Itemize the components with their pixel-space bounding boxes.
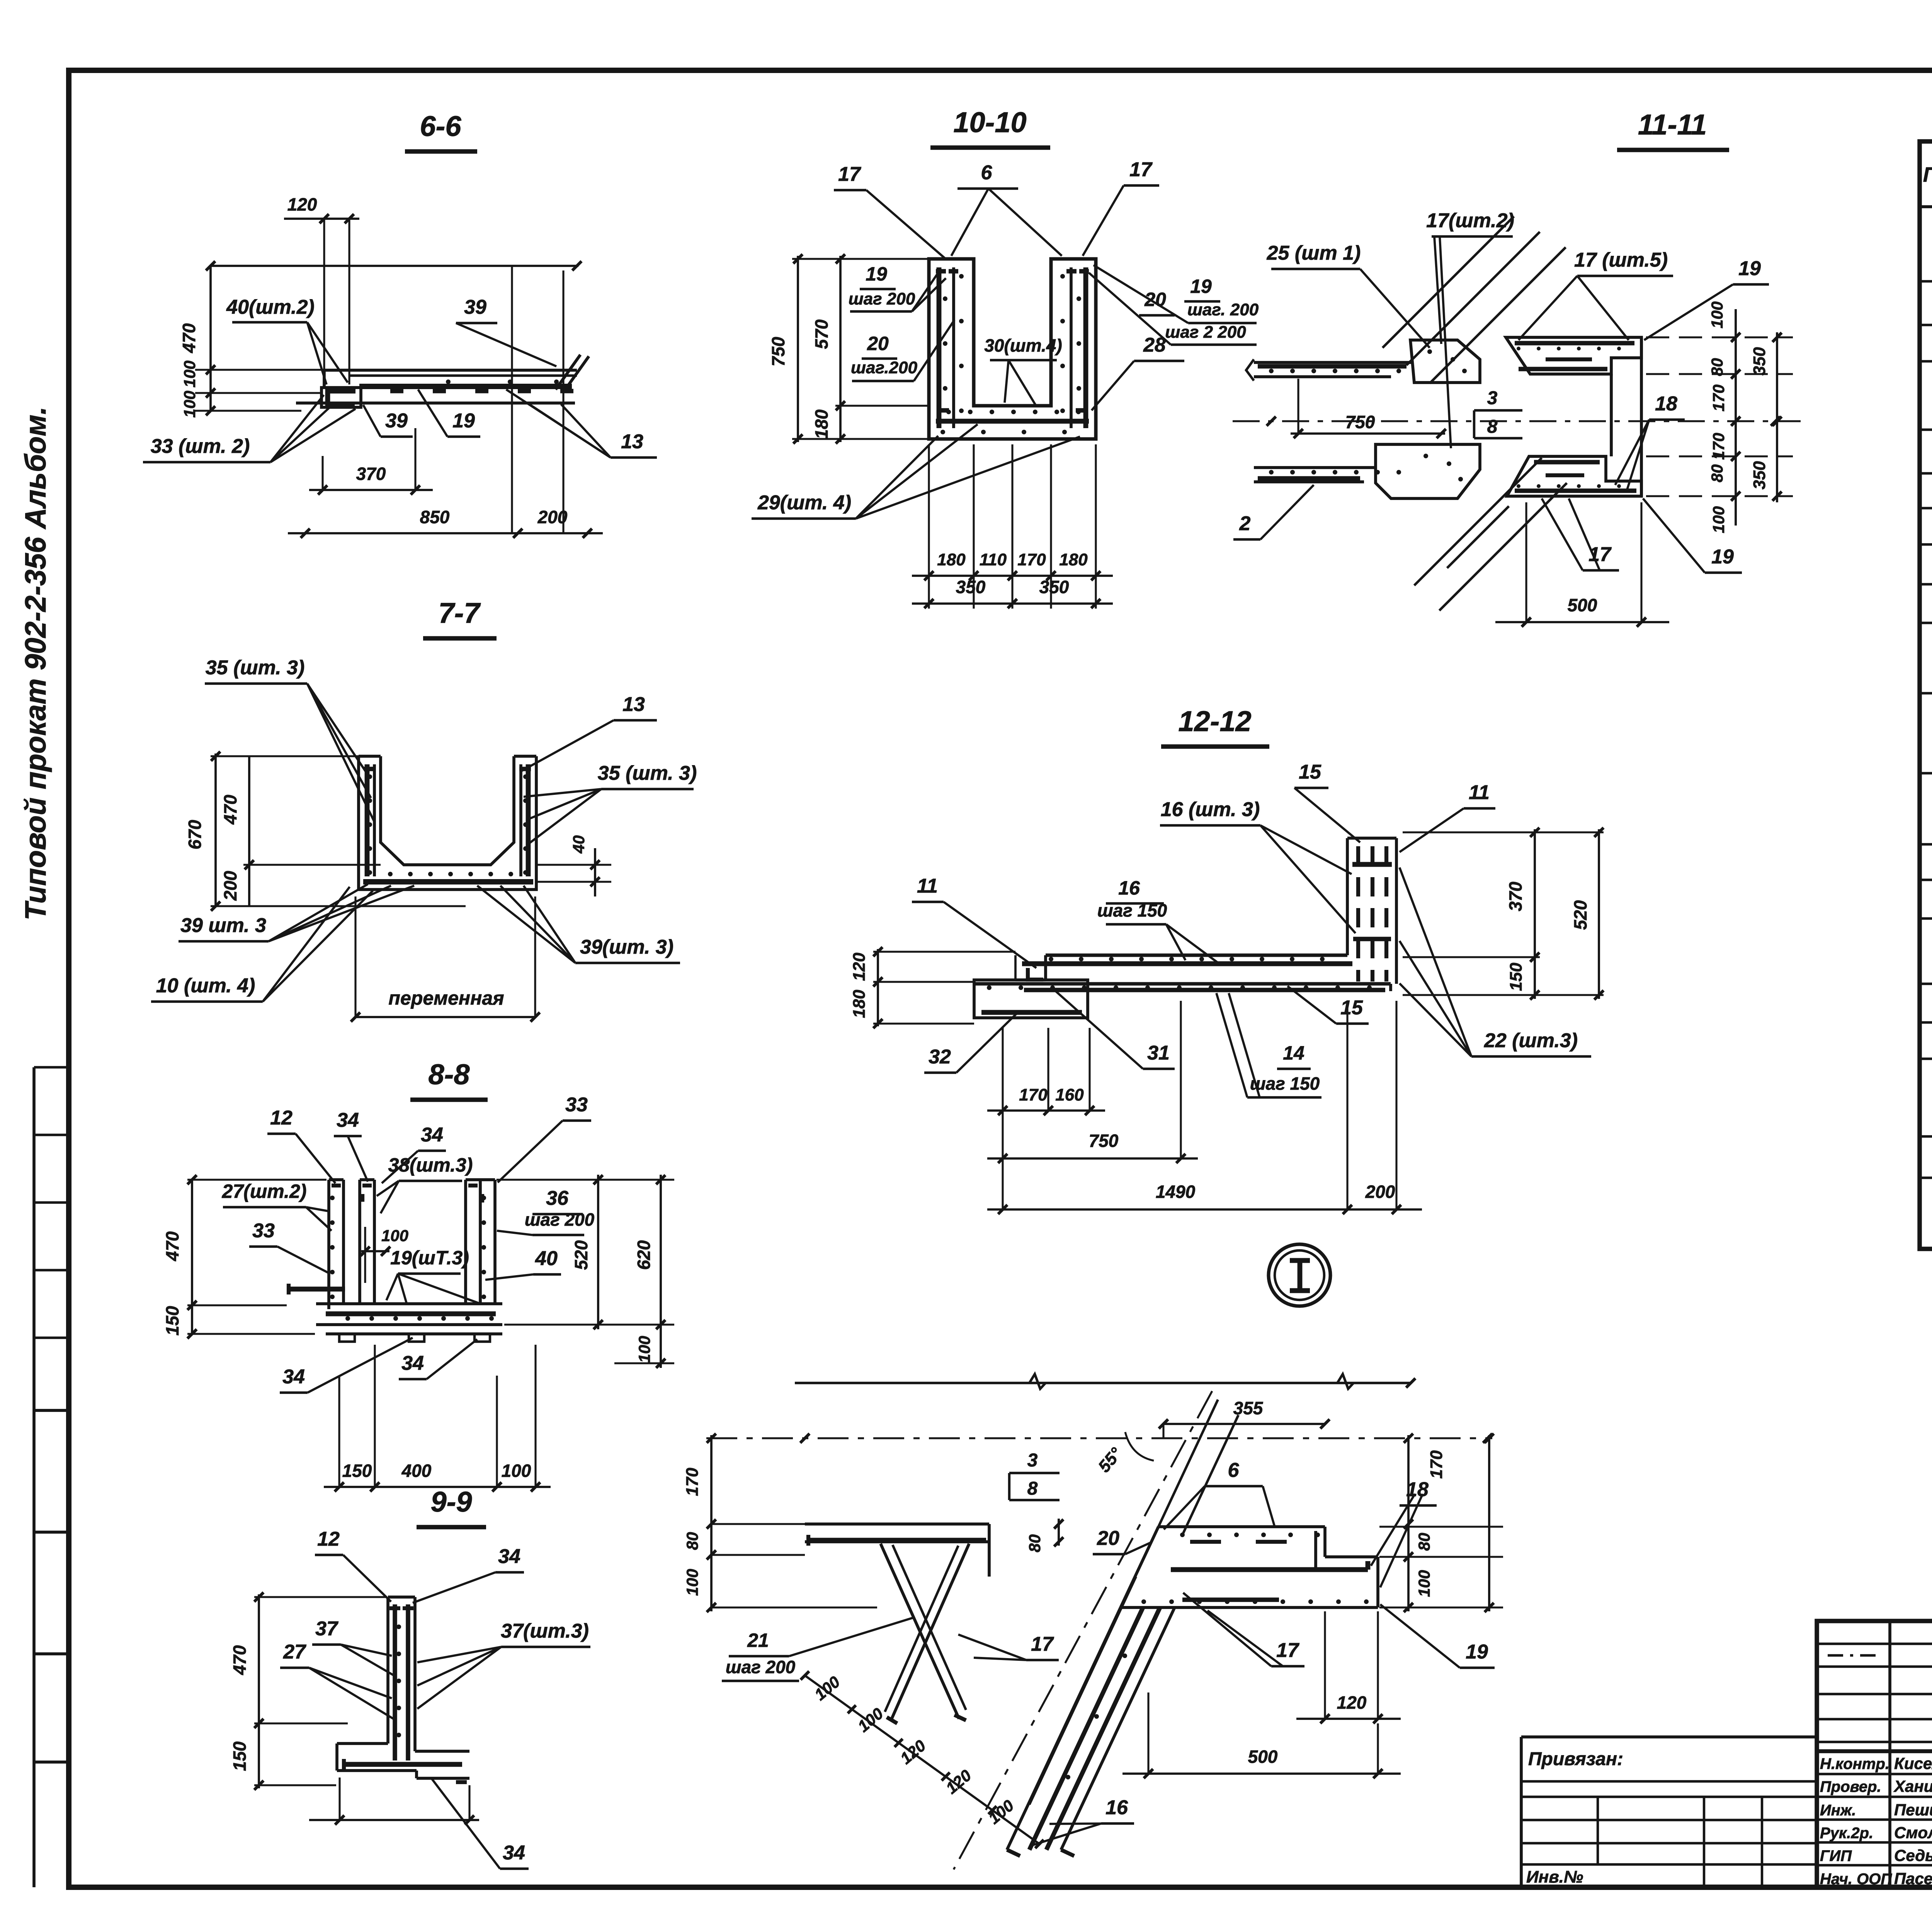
svg-text:39 шт. 3: 39 шт. 3 xyxy=(180,914,266,937)
section 10-10 label 20 shag 200 left xyxy=(851,320,954,381)
section 9-9 label 34 top xyxy=(413,1545,524,1603)
svg-text:33: 33 xyxy=(565,1094,588,1116)
section 11-11 centerline xyxy=(1233,417,1801,426)
svg-text:100: 100 xyxy=(381,1226,408,1245)
detail left dim chain xyxy=(683,1434,877,1612)
svg-text:17: 17 xyxy=(1276,1639,1299,1662)
svg-text:19: 19 xyxy=(866,263,887,285)
svg-text:38(шт.3): 38(шт.3) xyxy=(388,1154,473,1176)
svg-text:400: 400 xyxy=(401,1461,432,1481)
svg-text:13: 13 xyxy=(622,693,645,716)
section 12-12 label 11 left xyxy=(912,875,1036,968)
section 12-12 label 16(sht.3) xyxy=(1160,798,1355,933)
section 6-6 label 19 xyxy=(418,390,480,437)
section 12-12 label 31 xyxy=(1056,991,1175,1069)
detail label 19 right xyxy=(1380,1604,1495,1668)
section 12-12 label 11 top xyxy=(1400,781,1495,852)
section 8-8 label 33 left xyxy=(249,1220,329,1273)
svg-text:470: 470 xyxy=(220,794,240,825)
svg-text:80: 80 xyxy=(683,1532,701,1550)
svg-text:2: 2 xyxy=(1239,512,1251,535)
svg-text:39: 39 xyxy=(385,410,408,432)
svg-text:170: 170 xyxy=(1427,1450,1446,1479)
section 6-6 label 39 right xyxy=(456,296,556,366)
svg-text:27: 27 xyxy=(283,1641,306,1663)
section 8-8 label 34 b xyxy=(382,1124,446,1183)
section 9-9 label 37 xyxy=(312,1618,393,1675)
section 11-11 label 19 top xyxy=(1644,257,1769,340)
svg-text:100: 100 xyxy=(502,1461,531,1481)
detail long diagonal xyxy=(954,1391,1212,1869)
svg-text:Инв.№: Инв.№ xyxy=(1526,1868,1583,1886)
svg-text:Н.контр.: Н.контр. xyxy=(1820,1755,1889,1772)
svg-text:шаг 200: шаг 200 xyxy=(849,289,915,308)
svg-text:110: 110 xyxy=(980,550,1007,569)
svg-text:12: 12 xyxy=(317,1528,340,1550)
svg-text:шаг 2 200: шаг 2 200 xyxy=(1165,323,1246,342)
svg-text:Киселев: Киселев xyxy=(1894,1754,1932,1772)
section 7-7 label 35(sht.3) top xyxy=(205,657,374,821)
section 10-10 label 19 shag 200 right xyxy=(1094,265,1259,323)
svg-text:1490: 1490 xyxy=(1156,1182,1196,1202)
detail dim 500 xyxy=(1122,1692,1401,1778)
section 11-11 dim 500 xyxy=(1495,502,1669,627)
detail centerline xyxy=(706,1434,1492,1443)
svg-text:35 (шт. 3): 35 (шт. 3) xyxy=(206,657,305,679)
title block grid xyxy=(1817,1621,1932,1887)
svg-text:33: 33 xyxy=(252,1220,275,1242)
section 8-8 label 19(sht.3) xyxy=(386,1247,478,1303)
section 6-6 dim 370 xyxy=(309,428,433,495)
svg-text:19: 19 xyxy=(1466,1641,1488,1663)
section 11-11 title xyxy=(1617,109,1729,150)
detail label 17 left xyxy=(958,1633,1059,1660)
svg-text:12-12: 12-12 xyxy=(1178,705,1251,737)
section 12-12 bottom dims xyxy=(987,1001,1422,1214)
svg-text:15: 15 xyxy=(1299,761,1321,783)
svg-text:170: 170 xyxy=(1017,550,1046,569)
section 8-8 left dim chain xyxy=(162,1175,327,1339)
section 9-9 label 37(sht.3) xyxy=(417,1620,590,1709)
detail angle 55 xyxy=(1095,1432,1154,1476)
svg-text:170: 170 xyxy=(1709,433,1728,460)
detail diagonal dim chain xyxy=(801,1671,1044,1848)
svg-text:6-6: 6-6 xyxy=(420,110,462,142)
svg-text:Привязан:: Привязан: xyxy=(1528,1749,1623,1769)
svg-text:шаг. 200: шаг. 200 xyxy=(1187,300,1259,319)
detail label 21 shag200 xyxy=(722,1617,915,1681)
svg-text:16: 16 xyxy=(1105,1796,1128,1819)
svg-text:Инж.: Инж. xyxy=(1820,1802,1856,1819)
svg-text:ГИП: ГИП xyxy=(1820,1847,1852,1864)
section 12-12 outline and rebar xyxy=(974,838,1396,1018)
section 11-11 left slabs xyxy=(1246,340,1480,498)
svg-text:Пасева: Пасева xyxy=(1894,1869,1932,1888)
svg-text:150: 150 xyxy=(162,1306,182,1335)
section 7-7 left dim chain xyxy=(185,752,466,911)
svg-text:20: 20 xyxy=(1144,289,1166,310)
svg-text:470: 470 xyxy=(230,1645,250,1675)
left table header xyxy=(1923,159,1932,186)
svg-text:35 (шт. 3): 35 (шт. 3) xyxy=(598,762,697,784)
svg-text:160: 160 xyxy=(1055,1085,1084,1104)
svg-text:37: 37 xyxy=(315,1618,338,1640)
svg-text:370: 370 xyxy=(356,464,386,484)
section 10-10 channel outline and rebar xyxy=(929,259,1096,439)
svg-text:37(шт.3): 37(шт.3) xyxy=(501,1620,589,1642)
section 11-11 label 17 bottom xyxy=(1542,498,1619,570)
binding strip xyxy=(34,1067,69,1887)
detail top line xyxy=(795,1374,1415,1389)
svg-text:8: 8 xyxy=(1027,1478,1038,1499)
svg-text:750: 750 xyxy=(1089,1131,1119,1151)
section 6-6 dim 120 xyxy=(284,194,359,386)
svg-text:100: 100 xyxy=(1708,301,1726,328)
svg-text:25 (шт 1): 25 (шт 1) xyxy=(1267,242,1361,264)
svg-text:370: 370 xyxy=(1505,881,1526,911)
svg-text:350: 350 xyxy=(1750,347,1769,376)
section 12-12 title xyxy=(1161,705,1269,747)
section 10-10 label 29(sht.4) xyxy=(752,424,1080,519)
svg-text:500: 500 xyxy=(1568,595,1597,615)
svg-text:34: 34 xyxy=(282,1366,305,1388)
svg-text:10-10: 10-10 xyxy=(953,106,1026,138)
svg-text:18: 18 xyxy=(1655,393,1677,415)
svg-text:570: 570 xyxy=(811,319,832,349)
svg-text:200: 200 xyxy=(1365,1182,1395,1202)
svg-text:19: 19 xyxy=(1738,257,1761,280)
svg-text:620: 620 xyxy=(634,1240,654,1270)
svg-text:17: 17 xyxy=(1031,1633,1054,1655)
svg-text:Поз.: Поз. xyxy=(1923,163,1932,186)
svg-text:19(шТ.3): 19(шТ.3) xyxy=(390,1247,469,1269)
section 7-7 label 39(sht.3) bottom xyxy=(477,886,680,963)
section 10-10 label 17 right xyxy=(1083,158,1159,256)
section 8-8 dim 100 small xyxy=(361,1226,408,1283)
svg-text:170: 170 xyxy=(1019,1085,1048,1104)
section 11-11 label 18 xyxy=(1615,393,1685,491)
detail right dim chain xyxy=(1314,1434,1503,1612)
svg-text:80: 80 xyxy=(1708,358,1726,376)
section 6-6 label 13 xyxy=(506,390,657,458)
section 10-10 label 28 xyxy=(1092,334,1184,410)
svg-text:Пешикова: Пешикова xyxy=(1894,1801,1932,1819)
section 11-11 right extension dashes xyxy=(1646,337,1793,496)
svg-text:22 (шт.3): 22 (шт.3) xyxy=(1484,1029,1578,1052)
svg-text:Седых: Седых xyxy=(1894,1846,1932,1864)
section 7-7 label 10 (sht.4) xyxy=(151,887,373,1002)
detail marker 3-8 xyxy=(1009,1450,1060,1500)
svg-text:Ханин: Ханин xyxy=(1893,1777,1932,1795)
svg-text:15: 15 xyxy=(1340,997,1363,1019)
svg-text:16: 16 xyxy=(1118,877,1140,899)
svg-text:500: 500 xyxy=(1248,1747,1278,1767)
left margin album text xyxy=(19,407,52,920)
svg-text:850: 850 xyxy=(420,507,450,527)
section 11-11 right blocks xyxy=(1506,337,1641,496)
detail dim 120 xyxy=(1296,1611,1401,1723)
svg-text:19: 19 xyxy=(452,410,475,432)
svg-text:17(шт.2): 17(шт.2) xyxy=(1426,209,1514,232)
svg-text:34: 34 xyxy=(421,1124,443,1146)
svg-text:17: 17 xyxy=(838,163,861,185)
annex privyazan xyxy=(1528,1749,1623,1769)
svg-text:100: 100 xyxy=(1415,1570,1433,1597)
section 11-11 label 19 bottom xyxy=(1643,498,1742,573)
section 6-6 label 40(sht.2) xyxy=(226,296,348,384)
svg-text:Нач. ООП: Нач. ООП xyxy=(1820,1871,1892,1888)
svg-text:80: 80 xyxy=(1415,1533,1433,1551)
svg-text:750: 750 xyxy=(768,337,788,366)
section 12-12 label 16 shag150 xyxy=(1097,877,1217,962)
svg-text:150: 150 xyxy=(230,1741,250,1771)
svg-text:шаг 150: шаг 150 xyxy=(1250,1073,1320,1094)
section 12-12 label 32 xyxy=(924,1013,1017,1073)
section 11-11 label 25(sht 1) xyxy=(1267,242,1430,348)
svg-text:10 (шт. 4): 10 (шт. 4) xyxy=(156,975,255,997)
annex table grid xyxy=(1521,1737,1817,1887)
section 9-9 title xyxy=(417,1486,486,1527)
section 9-9 label 27 xyxy=(280,1641,393,1719)
svg-text:470: 470 xyxy=(162,1231,182,1261)
svg-text:520: 520 xyxy=(571,1240,591,1270)
svg-text:17: 17 xyxy=(1129,158,1153,181)
section 8-8 outline and rebar xyxy=(288,1180,502,1342)
section 10-10 label 17 left xyxy=(834,163,945,258)
section 8-8 label 40 xyxy=(485,1247,561,1280)
svg-text:350: 350 xyxy=(1750,461,1769,490)
svg-text:520: 520 xyxy=(1570,900,1590,930)
section 8-8 label 38(sht.3) xyxy=(377,1154,473,1213)
svg-text:100: 100 xyxy=(180,391,199,418)
svg-text:7-7: 7-7 xyxy=(439,597,481,629)
section 11-11 label 2 xyxy=(1233,485,1314,539)
section 11-11 marker 3-8 xyxy=(1474,388,1522,438)
svg-text:21: 21 xyxy=(747,1630,769,1651)
detail left slab and X brace xyxy=(805,1524,989,1723)
svg-text:150: 150 xyxy=(1507,963,1526,991)
section 6-6 left dim chain xyxy=(179,266,325,418)
svg-text:11: 11 xyxy=(1469,781,1490,804)
section 11-11 label 3-8 left xyxy=(0,0,0,0)
svg-text:180: 180 xyxy=(937,550,966,569)
svg-text:переменная: переменная xyxy=(388,987,504,1009)
section 12-12 label 15 top xyxy=(1294,761,1360,842)
section 6-6 label 33(sht.2) xyxy=(143,395,355,462)
svg-text:Смоляков: Смоляков xyxy=(1894,1823,1932,1842)
section 10-10 bottom dims xyxy=(912,444,1113,609)
section 6-6 top dim line xyxy=(206,261,582,270)
section 8-8 label 34 a xyxy=(334,1109,368,1182)
section 6-6 dim 850 and 200 xyxy=(288,267,603,538)
svg-text:Провер.: Провер. xyxy=(1820,1778,1881,1795)
section 9-9 label 34 bottom xyxy=(432,1779,529,1869)
section 8-8 label 27(sht.2) xyxy=(222,1180,332,1231)
section 6-6 label 39 bottom xyxy=(363,405,413,437)
svg-text:31: 31 xyxy=(1147,1042,1170,1064)
svg-text:39: 39 xyxy=(464,296,486,318)
svg-text:80: 80 xyxy=(1026,1534,1044,1553)
section 7-7 channel outline and rebar xyxy=(359,756,536,890)
section 7-7 label 39 sht.3 xyxy=(179,884,414,941)
section 9-9 left dim chain xyxy=(230,1592,386,1790)
svg-text:39(шт. 3): 39(шт. 3) xyxy=(580,936,673,958)
detail label 6 xyxy=(1164,1459,1274,1529)
section 7-7 dim 40 xyxy=(536,835,611,896)
section 7-7 dim peremennaya xyxy=(351,896,540,1022)
section 10-10 left dim chain xyxy=(768,254,929,444)
section 11-11 label 17(sht.2) xyxy=(1426,209,1514,448)
section 6-6 title xyxy=(405,110,477,151)
section 8-8 label 12 xyxy=(267,1107,335,1183)
section 10-10 label 20 shag 2200 right xyxy=(1089,273,1257,345)
svg-text:шаг.200: шаг.200 xyxy=(851,358,918,377)
detail label 18 xyxy=(1371,1478,1437,1587)
svg-text:8-8: 8-8 xyxy=(429,1058,470,1090)
section 7-7 title xyxy=(423,597,497,638)
section 11-11 label 17 (sht.5) xyxy=(1519,249,1673,340)
svg-text:Типовой прокат 902-2-356: Типовой прокат 902-2-356 Альбом. xyxy=(19,407,52,920)
section 9-9 outline and rebar xyxy=(337,1597,469,1782)
section 10-10 label 6 xyxy=(951,162,1062,256)
node I circle xyxy=(1269,1244,1330,1306)
section 11-11 right dim chains xyxy=(1708,301,1782,533)
svg-text:36: 36 xyxy=(546,1187,569,1209)
section 10-10 title xyxy=(930,106,1050,148)
svg-text:34: 34 xyxy=(401,1352,424,1374)
annex inv no xyxy=(1526,1868,1583,1886)
svg-text:80: 80 xyxy=(1708,464,1726,483)
svg-text:33 (шт. 2): 33 (шт. 2) xyxy=(151,435,250,458)
section 6-6 beam outline and rebar xyxy=(296,355,589,407)
svg-text:170: 170 xyxy=(1709,384,1728,412)
detail label 17 mid xyxy=(1183,1593,1304,1666)
svg-text:100: 100 xyxy=(1709,506,1728,533)
svg-text:12: 12 xyxy=(270,1107,293,1129)
svg-text:6: 6 xyxy=(981,162,993,184)
detail dim 355 xyxy=(1159,1398,1330,1438)
svg-text:34: 34 xyxy=(503,1842,525,1864)
svg-text:30(шт.4): 30(шт.4) xyxy=(984,335,1062,356)
detail inclined band xyxy=(1007,1400,1238,1856)
svg-text:19: 19 xyxy=(1711,546,1734,568)
svg-text:19: 19 xyxy=(1190,276,1212,297)
detail dim 80 left xyxy=(991,1519,1066,1552)
svg-text:29(шт. 4): 29(шт. 4) xyxy=(757,492,851,514)
section 8-8 label 34 d xyxy=(399,1339,477,1379)
title block staff xyxy=(1820,1754,1932,1888)
svg-text:180: 180 xyxy=(1059,550,1088,569)
detail label 20 xyxy=(1093,1527,1151,1554)
section 7-7 label 35(sht.3) right xyxy=(524,762,697,843)
svg-text:100: 100 xyxy=(683,1569,701,1596)
svg-text:120: 120 xyxy=(1337,1692,1367,1713)
section 9-9 bottom dim line xyxy=(309,1778,479,1825)
section 8-8 label 36 shag200 xyxy=(497,1187,595,1235)
svg-text:470: 470 xyxy=(179,323,199,353)
section 9-9 label 12 xyxy=(315,1528,391,1602)
section 11-11 diagonal wall band xyxy=(1383,216,1567,611)
svg-text:шаг 200: шаг 200 xyxy=(726,1657,796,1677)
svg-text:18: 18 xyxy=(1406,1478,1429,1501)
section 8-8 label 34 c xyxy=(280,1338,413,1393)
svg-text:200: 200 xyxy=(220,871,240,901)
section 7-7 label 13 xyxy=(522,693,657,771)
svg-text:20: 20 xyxy=(867,333,889,354)
section 12-12 label 15 mid xyxy=(1287,986,1369,1024)
svg-text:34: 34 xyxy=(337,1109,359,1131)
svg-text:100: 100 xyxy=(635,1336,653,1363)
svg-text:6: 6 xyxy=(1228,1459,1240,1482)
svg-text:28: 28 xyxy=(1143,334,1166,356)
svg-text:670: 670 xyxy=(185,820,205,849)
svg-text:13: 13 xyxy=(621,430,643,453)
svg-text:34: 34 xyxy=(498,1545,520,1568)
svg-text:180: 180 xyxy=(850,990,869,1018)
svg-text:350: 350 xyxy=(1039,577,1069,597)
section 12-12 right dim chain xyxy=(1403,828,1604,1000)
svg-text:40: 40 xyxy=(570,835,588,854)
section 12-12 left dim chain xyxy=(850,947,1015,1028)
section 8-8 right dim chain xyxy=(497,1175,674,1368)
section 12-12 label 22(sht.3) xyxy=(1400,867,1591,1056)
detail label 16 xyxy=(1032,1796,1134,1845)
svg-text:100: 100 xyxy=(180,361,199,388)
svg-text:170: 170 xyxy=(683,1468,702,1496)
svg-text:32: 32 xyxy=(929,1046,951,1068)
section 11-11 dim 750 xyxy=(1291,379,1446,438)
section 10-10 label 19 shag 200 left xyxy=(849,263,946,311)
svg-text:11-11: 11-11 xyxy=(1638,109,1707,141)
svg-text:8: 8 xyxy=(1487,417,1498,437)
svg-text:27(шт.2): 27(шт.2) xyxy=(222,1180,307,1202)
svg-text:9-9: 9-9 xyxy=(431,1486,472,1518)
svg-text:20: 20 xyxy=(1097,1527,1119,1550)
section 8-8 label 33 top xyxy=(498,1094,591,1182)
svg-text:Рук.2р.: Рук.2р. xyxy=(1820,1825,1873,1842)
svg-text:40(шт.2): 40(шт.2) xyxy=(226,296,315,318)
svg-text:750: 750 xyxy=(1345,412,1375,432)
svg-text:350: 350 xyxy=(956,577,986,597)
section 12-12 label 14 shag150 xyxy=(1216,993,1321,1097)
svg-text:шаг 200: шаг 200 xyxy=(525,1209,595,1230)
svg-text:180: 180 xyxy=(811,409,832,439)
svg-text:17 (шт.5): 17 (шт.5) xyxy=(1574,249,1668,271)
detail right block xyxy=(1121,1527,1378,1607)
svg-text:16 (шт. 3): 16 (шт. 3) xyxy=(1161,798,1260,821)
section 10-10 label 30(sht.4) xyxy=(984,335,1062,405)
svg-text:3: 3 xyxy=(1027,1450,1038,1471)
svg-text:40: 40 xyxy=(535,1247,558,1270)
svg-text:120: 120 xyxy=(850,953,869,981)
svg-text:120: 120 xyxy=(287,194,317,214)
svg-text:3: 3 xyxy=(1487,388,1498,408)
svg-text:150: 150 xyxy=(342,1461,372,1481)
svg-text:14: 14 xyxy=(1283,1042,1304,1064)
section 8-8 title xyxy=(410,1058,488,1100)
section 8-8 bottom dims xyxy=(324,1345,551,1492)
left table grid xyxy=(1920,141,1932,1249)
svg-text:11: 11 xyxy=(917,875,938,897)
